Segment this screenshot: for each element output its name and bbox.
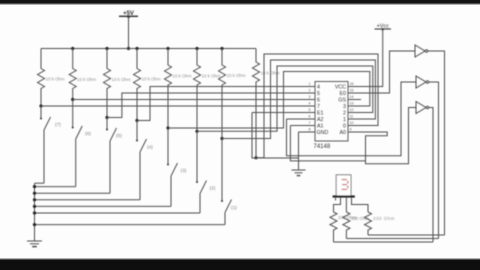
svg-text:2: 2 xyxy=(309,89,311,93)
svg-text:5: 5 xyxy=(317,91,320,97)
wire R6 run over the top to pin12 input 2 xyxy=(197,66,373,131)
node bus dots at resistor tops xyxy=(71,47,224,50)
wire display pin c to resistor R11 xyxy=(352,198,369,212)
wire display pin b to resistor R10 xyxy=(345,198,347,212)
switch J1 key 7 xyxy=(41,106,61,183)
resistor R11 330 Ohm xyxy=(365,212,395,235)
op-amp U4 buffer bottom xyxy=(416,102,429,114)
svg-text:1: 1 xyxy=(309,82,311,86)
wire E1 pin5 under encoder to ground rail xyxy=(252,112,307,114)
power +Vcc supply top right xyxy=(375,24,392,31)
resistor R4 10k xyxy=(134,49,161,121)
svg-text:(7): (7) xyxy=(55,122,61,128)
pin stubs right 16-9 xyxy=(348,82,361,132)
svg-text:10 k Ohm: 10 k Ohm xyxy=(173,74,192,79)
node R4 tap xyxy=(135,119,138,122)
svg-text:E0: E0 xyxy=(340,91,347,97)
wire U2 output down right xyxy=(428,51,445,235)
op-amp U3 buffer middle xyxy=(416,76,429,88)
wire display pin a to resistor R9 xyxy=(334,198,341,212)
svg-text:GS: GS xyxy=(338,97,346,103)
svg-text:15: 15 xyxy=(350,89,354,93)
svg-text:A1: A1 xyxy=(317,123,324,129)
wire R3 tap jog to encoder pin2 input 5 xyxy=(107,93,307,118)
resistor R8 10k xyxy=(253,49,280,158)
svg-text:11: 11 xyxy=(350,115,354,119)
svg-text:330 Ohm: 330 Ohm xyxy=(373,216,395,221)
svg-text:2: 2 xyxy=(343,110,346,116)
svg-text:3: 3 xyxy=(309,95,311,99)
svg-text:16: 16 xyxy=(350,82,354,86)
wire E0 pin15 up to buffer U2 input xyxy=(357,51,415,93)
wire top supply bus xyxy=(41,48,256,50)
svg-text:3: 3 xyxy=(343,104,346,110)
wire A1 pin7 down and right xyxy=(290,125,307,127)
svg-text:14: 14 xyxy=(350,95,354,99)
svg-text:13: 13 xyxy=(350,102,354,106)
wire GND pin8 to ground xyxy=(299,131,308,133)
node R7 tap xyxy=(220,137,223,140)
svg-text:(5): (5) xyxy=(116,133,122,139)
node R2 tap xyxy=(71,98,74,101)
svg-text:(2): (2) xyxy=(210,186,216,192)
svg-text:12: 12 xyxy=(350,108,354,112)
resistor R9 330 Ohm xyxy=(330,212,356,242)
svg-text:0: 0 xyxy=(343,123,346,129)
svg-text:1: 1 xyxy=(343,117,346,123)
wire +5V stem to bus xyxy=(128,16,130,48)
wire R9 bottom rail to U4 output xyxy=(334,241,434,243)
node +5V bus junction xyxy=(127,47,130,50)
switch J3 key 5 xyxy=(107,118,122,194)
wire R1 tap to encoder pin4 input 7 xyxy=(41,105,307,107)
resistor R7 10k xyxy=(219,49,246,139)
svg-text:VCC: VCC xyxy=(335,84,346,90)
7-segment display U5 xyxy=(333,175,355,201)
node R5 tap xyxy=(166,126,169,129)
wire R5 run over the top to pin13 input 3 xyxy=(168,72,370,129)
wire left ground bus xyxy=(34,183,36,241)
wire U4 output down right xyxy=(429,108,433,243)
switch J4 key 4 xyxy=(137,121,153,200)
wire A0 pin9 jog down to buffer U4 input xyxy=(357,108,416,164)
svg-text:8: 8 xyxy=(309,128,311,132)
wire A2 pin6 down and right to buffer U3 input xyxy=(287,118,308,120)
wire R11 bottom rail to U2 output xyxy=(368,234,445,236)
node switch terminals xyxy=(40,118,223,203)
wire R4 tap jog to encoder pin1 input 4 xyxy=(137,87,307,121)
node R8 tap xyxy=(254,156,257,159)
switch J5 key 3 xyxy=(168,128,187,206)
power +5V supply V1 xyxy=(119,11,138,18)
svg-text:E1: E1 xyxy=(317,110,324,116)
switch J2 key 6 xyxy=(73,100,92,187)
svg-text:7: 7 xyxy=(309,121,311,125)
svg-text:10 k Ohm: 10 k Ohm xyxy=(112,77,131,82)
svg-text:4: 4 xyxy=(317,84,320,90)
wire switch returns to ground bus xyxy=(35,182,45,184)
wire U3 output down right xyxy=(429,82,439,239)
node R6 tap xyxy=(195,130,198,133)
svg-text:6: 6 xyxy=(317,97,320,103)
op-amp U1 74148 encoder body xyxy=(314,82,349,151)
svg-text:A0: A0 xyxy=(340,130,347,136)
svg-text:74148: 74148 xyxy=(314,144,331,150)
ground GND2 below encoder xyxy=(292,170,306,176)
svg-text:9: 9 xyxy=(350,128,352,132)
resistor R3 10k xyxy=(104,49,131,118)
resistor R6 10k xyxy=(194,49,221,132)
svg-text:10 k Ohm: 10 k Ohm xyxy=(227,73,246,78)
letterbox bottom bar xyxy=(0,258,480,259)
resistor R10 330 Ohm xyxy=(343,212,370,239)
wire +Vcc down to VCC pin16 xyxy=(357,29,383,87)
svg-text:(1): (1) xyxy=(231,205,237,211)
svg-text:(3): (3) xyxy=(181,168,187,174)
resistor R2 10k xyxy=(69,49,96,100)
wire R8 run over the top to pin10 input 0 xyxy=(256,54,378,158)
wire R2 tap to encoder pin3 input 6 xyxy=(73,99,307,101)
node R1 tap xyxy=(39,104,42,107)
wire R7 run over the top to pin11 input 1 xyxy=(222,60,375,139)
letterbox top bar xyxy=(0,0,480,4)
svg-text:6: 6 xyxy=(309,115,311,119)
svg-text:10 k Ohm: 10 k Ohm xyxy=(142,77,161,82)
svg-text:(4): (4) xyxy=(147,145,153,151)
op-amp U2 buffer top xyxy=(415,45,428,57)
svg-text:7: 7 xyxy=(317,104,320,110)
svg-text:(6): (6) xyxy=(85,131,91,137)
switch J6 key 2 xyxy=(197,131,216,213)
svg-text:10 k Ohm: 10 k Ohm xyxy=(46,77,65,82)
pin stubs left 1-8 xyxy=(307,82,315,132)
node ground bus junctions xyxy=(33,185,36,226)
resistor R1 10k xyxy=(38,49,65,107)
wire R10 bottom rail to U3 output xyxy=(346,238,438,240)
svg-text:5: 5 xyxy=(309,108,311,112)
node R3 tap xyxy=(105,116,108,119)
svg-text:A2: A2 xyxy=(317,117,324,123)
switch J7 key 1 xyxy=(222,139,237,225)
svg-text:10 k Ohm: 10 k Ohm xyxy=(202,74,221,79)
svg-text:GND: GND xyxy=(317,130,329,136)
resistor R5 10k xyxy=(165,49,192,129)
ground GND1 bottom left xyxy=(27,241,42,247)
svg-text:4: 4 xyxy=(309,102,311,106)
svg-text:10 k Ohm: 10 k Ohm xyxy=(77,77,96,82)
svg-text:10: 10 xyxy=(350,121,354,125)
